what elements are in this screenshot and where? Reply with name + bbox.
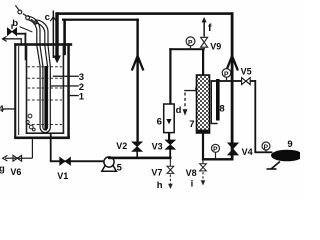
label 4 leader <box>3 108 15 109</box>
svg-text:P: P <box>264 144 269 151</box>
label 5 <box>117 163 123 174</box>
label f <box>208 22 212 34</box>
condenser 8 inner bar <box>216 79 220 121</box>
label V3 <box>152 141 163 151</box>
svg-text:g: g <box>0 164 5 175</box>
svg-text:V2: V2 <box>116 141 127 151</box>
gauge P1 <box>186 37 195 50</box>
label 3 leader <box>53 76 79 77</box>
gauge P4 <box>262 142 270 152</box>
wire V1 line <box>50 160 105 162</box>
svg-text:d: d <box>176 105 182 116</box>
label V6 <box>10 167 21 177</box>
valve V1 <box>60 157 71 165</box>
gauge P3 <box>212 144 220 158</box>
svg-text:b: b <box>12 18 18 29</box>
svg-text:V4: V4 <box>242 147 253 157</box>
bubbles <box>26 114 35 131</box>
drain to V6 <box>3 139 33 161</box>
svg-text:f: f <box>208 22 212 34</box>
label 1 leader <box>68 95 79 96</box>
svg-text:i: i <box>191 178 194 189</box>
svg-text:P: P <box>213 146 218 153</box>
vessel outer jacket 1 <box>14 43 72 139</box>
wire inner loop top <box>62 19 139 21</box>
svg-text:5: 5 <box>117 163 123 174</box>
inlet valve b <box>7 24 16 35</box>
valve V5 <box>241 77 251 85</box>
label d <box>176 105 182 116</box>
feed a dashed loop curve <box>15 5 36 24</box>
svg-text:1: 1 <box>79 92 85 103</box>
label 9 <box>287 139 292 150</box>
vent w arrow left <box>2 36 22 44</box>
label V8 <box>186 168 197 178</box>
vent f arrow <box>202 17 207 22</box>
label i <box>191 178 194 189</box>
wire main bottom line <box>108 157 172 160</box>
gauge P2 <box>222 69 231 81</box>
svg-text:V9: V9 <box>210 41 221 51</box>
label g <box>0 164 5 175</box>
valve V4 <box>228 143 239 155</box>
wire V5 line <box>211 80 256 82</box>
arrow up on V2 riser <box>132 56 144 71</box>
column 7 <box>197 75 210 133</box>
svg-text:c: c <box>45 12 50 23</box>
dip tube U bend <box>40 128 50 133</box>
label V9 <box>210 41 221 51</box>
svg-text:V3: V3 <box>152 141 163 151</box>
label 1 <box>79 92 85 103</box>
dip tube left wall pair <box>27 16 43 127</box>
label V4 <box>242 147 253 157</box>
inner capillary 3 <box>44 66 47 131</box>
label b leader <box>20 27 33 32</box>
label V7 <box>151 167 162 177</box>
label b <box>12 18 18 29</box>
label 7 <box>189 119 194 130</box>
valve V6 <box>13 155 22 161</box>
label 8 <box>219 104 224 115</box>
svg-text:V7: V7 <box>151 167 162 177</box>
wire V9 riser <box>203 22 205 49</box>
arrow up on right vertical <box>226 56 238 71</box>
svg-text:V5: V5 <box>241 67 252 77</box>
wire column bottom pipe <box>202 133 204 160</box>
wire inner loop downtube into vessel <box>63 19 66 56</box>
feed d dashed arrow <box>183 87 197 115</box>
valve V2 <box>132 142 142 157</box>
label 2 leader <box>51 85 79 86</box>
drain to V1 <box>50 134 52 161</box>
sample valve V7 <box>167 159 174 190</box>
label 4 <box>0 104 5 115</box>
wire V2 riser <box>136 19 138 143</box>
dip tube right wall pair <box>34 20 50 128</box>
label V2 <box>116 141 127 151</box>
wire return downtube into vessel <box>55 12 58 56</box>
sample valve V8 <box>200 161 207 186</box>
wire riser to top box <box>169 48 171 104</box>
wire V5 to bulb <box>254 80 272 153</box>
label 2 <box>79 82 84 93</box>
sampling bulb 9 <box>267 150 304 169</box>
tube c <box>50 11 56 59</box>
liquid dashed levels <box>28 67 63 125</box>
svg-text:V8: V8 <box>186 168 197 178</box>
svg-text:V1: V1 <box>57 171 68 181</box>
svg-text:V6: V6 <box>10 167 21 177</box>
label h <box>157 180 163 191</box>
wire bottom right line <box>202 158 234 160</box>
svg-text:9: 9 <box>287 139 292 150</box>
label V5 <box>241 67 252 77</box>
wire top box line <box>169 48 204 50</box>
label 3 <box>79 72 84 83</box>
svg-text:8: 8 <box>219 104 224 115</box>
valve V3 <box>165 140 175 157</box>
wire valve b to vessel <box>17 33 27 61</box>
rotameter 6 <box>164 104 175 133</box>
condenser 8 envelope <box>211 81 218 124</box>
arrow down into vessel <box>53 56 61 64</box>
label c <box>45 12 50 23</box>
wire column top pipe <box>202 49 204 76</box>
valve V9 <box>200 37 208 49</box>
svg-text:h: h <box>157 180 163 191</box>
wire outer loop right vertical <box>231 12 234 160</box>
label V1 <box>57 171 68 181</box>
pump 5 <box>102 157 117 171</box>
wire outer loop top <box>56 12 233 15</box>
svg-text:P: P <box>224 71 229 78</box>
svg-text:6: 6 <box>157 117 162 128</box>
vessel inner 2 <box>26 46 64 134</box>
svg-text:7: 7 <box>189 119 194 130</box>
label 6 <box>157 117 162 128</box>
svg-text:P: P <box>188 39 193 46</box>
wire rotameter to V3 <box>168 133 170 142</box>
